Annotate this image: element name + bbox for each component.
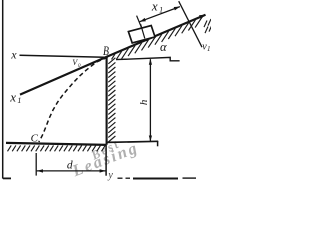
svg-text:1: 1: [207, 45, 211, 53]
svg-text:C: C: [31, 132, 39, 144]
svg-text:h: h: [138, 99, 150, 105]
svg-text:B: B: [103, 45, 109, 58]
svg-text:x: x: [9, 89, 16, 104]
svg-text:1: 1: [17, 96, 21, 105]
svg-text:x: x: [151, 0, 158, 13]
svg-text:y: y: [107, 170, 113, 181]
svg-text:d: d: [67, 159, 73, 171]
svg-text:α: α: [160, 40, 167, 54]
svg-text:1: 1: [159, 6, 163, 15]
svg-text:x: x: [10, 47, 17, 61]
